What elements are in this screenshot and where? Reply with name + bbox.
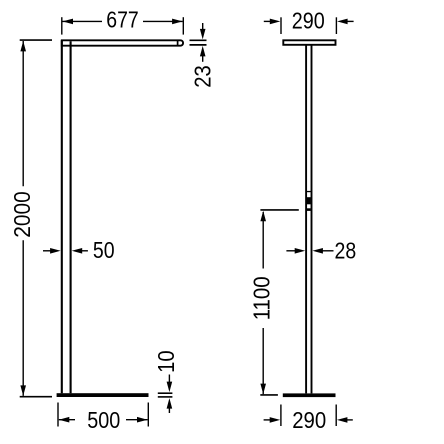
svg-text:28: 28 [335,238,357,264]
right view: lamp head [283,40,335,45]
svg-text:290: 290 [292,7,325,33]
svg-text:290: 290 [292,407,326,433]
dimension 2000 [20,40,52,397]
left view: pole [62,40,71,393]
right view: dimmer switch marks [307,191,311,211]
svg-text:23: 23 [190,65,216,88]
dimension 677 [62,17,184,34]
dimension 50 [43,250,88,252]
left view: base plate [57,393,149,397]
right view: base plate [283,393,336,397]
dimension 290 top [264,17,354,34]
dimension 28 [286,250,333,252]
svg-text:10: 10 [153,350,179,373]
dimension 500 [58,403,148,427]
left view: lamp head arm [62,40,183,45]
svg-text:677: 677 [106,7,139,33]
svg-text:2000: 2000 [9,191,35,238]
dimension 10 [158,375,173,414]
right view: pole [306,45,311,394]
svg-text:1100: 1100 [249,276,275,320]
svg-text:50: 50 [93,237,115,263]
svg-text:500: 500 [87,407,120,433]
dimension 290 bottom [264,405,353,427]
dimension 1100 [260,210,299,395]
dimension 23 [190,23,207,62]
